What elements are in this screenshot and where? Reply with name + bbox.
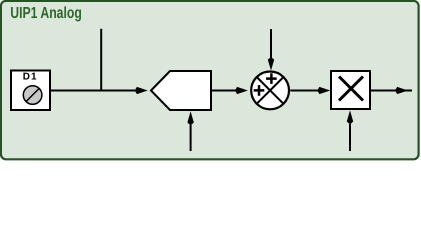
component D1 box: [11, 71, 50, 111]
pentagon block: [151, 71, 211, 110]
wire W6: summer to multiplier: [290, 90, 319, 92]
wire W3: bottom input into pentagon: [190, 125, 192, 151]
arrowhead up into multiplier: [347, 110, 353, 124]
wire W4: pentagon to summing junction: [212, 90, 237, 92]
wire W7: bottom input into multiplier: [349, 124, 351, 151]
summing junction circle: [251, 72, 289, 110]
multiplier box: [331, 71, 370, 109]
arrowhead up into pentagon: [187, 111, 193, 125]
arrowhead into multiplier: [317, 87, 330, 94]
wire W2: top input tee into W1: [100, 29, 102, 92]
multiplier X: [339, 77, 363, 101]
wire W5: top input into summer: [270, 29, 272, 59]
svg-text:D1: D1: [23, 72, 38, 83]
D1 dial circle: [23, 86, 42, 105]
arrowhead down into summer: [268, 57, 274, 71]
arrowhead into summer: [235, 87, 248, 94]
arrowhead into pentagon: [135, 87, 148, 94]
wire W8: multiplier output: [370, 90, 412, 92]
plus sign left quadrant: [254, 85, 265, 96]
wire W1: D1 output to pentagon: [50, 90, 136, 92]
plus sign top quadrant: [266, 73, 277, 84]
output arrowhead: [395, 87, 408, 94]
panel background: [0, 0, 421, 161]
svg-text:UIP1 Analog: UIP1 Analog: [10, 5, 82, 22]
